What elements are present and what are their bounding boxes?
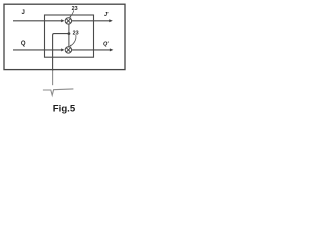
svg-text:Fig.5: Fig.5 [53, 104, 76, 115]
wire Q' output [72, 49, 111, 51]
svg-text:23: 23 [72, 6, 78, 12]
svg-text:Q': Q' [103, 41, 109, 47]
arrowhead into mixer 23 top [61, 19, 64, 22]
mixer 23 (top multiplier) [65, 18, 71, 24]
leader arrowhead top [69, 16, 71, 18]
LO wire below frame (light) [52, 70, 54, 85]
arrowhead into mixer 23 bottom [61, 48, 64, 51]
svg-text:Q: Q [21, 41, 26, 47]
wire Q input [13, 49, 62, 51]
oscillator waveform symbol [43, 89, 74, 95]
wire J' output [72, 20, 111, 22]
LO wire riser from oscillator [53, 34, 69, 71]
mixer 23 (bottom multiplier) [65, 47, 71, 53]
wire J input [13, 20, 62, 22]
arrowhead J' [109, 19, 113, 22]
leader line from top 23 to top mixer [70, 10, 74, 16]
leader arrowhead bottom [70, 45, 72, 47]
outer box (figure frame of circuit block) [4, 4, 125, 69]
junction dot LO node [68, 32, 71, 35]
svg-text:J: J [22, 10, 25, 16]
svg-text:J': J' [104, 12, 109, 18]
inner box (quadrature modulator block) [45, 15, 94, 57]
wire LO to both mixers [68, 24, 70, 47]
arrowhead Q' [110, 48, 114, 51]
leader line from mid 23 to bottom mixer [71, 35, 76, 46]
